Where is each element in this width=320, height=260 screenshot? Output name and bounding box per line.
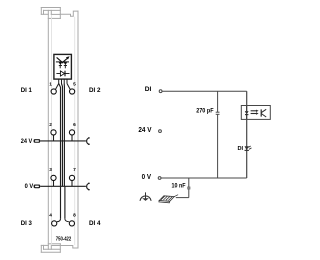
svg-text:0 V: 0 V (142, 172, 152, 181)
svg-text:DI 1: DI 1 (21, 87, 32, 94)
svg-text:DI 2: DI 2 (89, 87, 101, 94)
svg-text:4: 4 (49, 212, 52, 218)
svg-text:750-422: 750-422 (56, 237, 71, 243)
svg-text:DI: DI (238, 146, 244, 152)
svg-text:24 V: 24 V (21, 138, 33, 145)
svg-text:270 pF: 270 pF (196, 107, 214, 114)
svg-text:1: 1 (49, 82, 52, 88)
svg-text:6: 6 (73, 122, 76, 128)
svg-text:0 V: 0 V (25, 183, 34, 190)
svg-text:24 V: 24 V (138, 125, 151, 134)
svg-text:7: 7 (73, 167, 76, 173)
svg-text:DI: DI (145, 86, 152, 93)
svg-text:8: 8 (73, 212, 76, 218)
svg-text:3: 3 (49, 167, 52, 173)
svg-text:DI 3: DI 3 (21, 220, 32, 227)
svg-text:DI 4: DI 4 (89, 220, 101, 227)
svg-text:2: 2 (49, 122, 52, 128)
svg-text:10 nF: 10 nF (172, 183, 186, 190)
svg-text:5: 5 (73, 82, 76, 88)
